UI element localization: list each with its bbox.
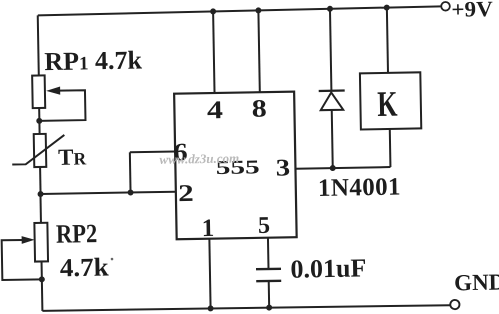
svg-text:8: 8 (252, 94, 267, 122)
svg-text:1: 1 (202, 215, 215, 242)
svg-text:RP2: RP2 (56, 219, 98, 249)
svg-text:www.dz3u.com: www.dz3u.com (159, 150, 239, 166)
svg-text:GND: GND (454, 269, 499, 295)
svg-text:RP1 4.7k: RP1 4.7k (44, 45, 143, 76)
svg-text:0.01uF: 0.01uF (290, 253, 366, 283)
svg-text:5: 5 (258, 213, 270, 239)
svg-text:3: 3 (276, 154, 291, 181)
svg-text:K: K (377, 83, 398, 124)
svg-text:2: 2 (178, 180, 194, 207)
svg-text:1N4001: 1N4001 (318, 174, 401, 202)
svg-text:4.7k: 4.7k (60, 252, 110, 282)
svg-text:TR: TR (58, 144, 87, 169)
svg-text:+9V: +9V (451, 0, 494, 22)
svg-text:4: 4 (207, 96, 223, 125)
